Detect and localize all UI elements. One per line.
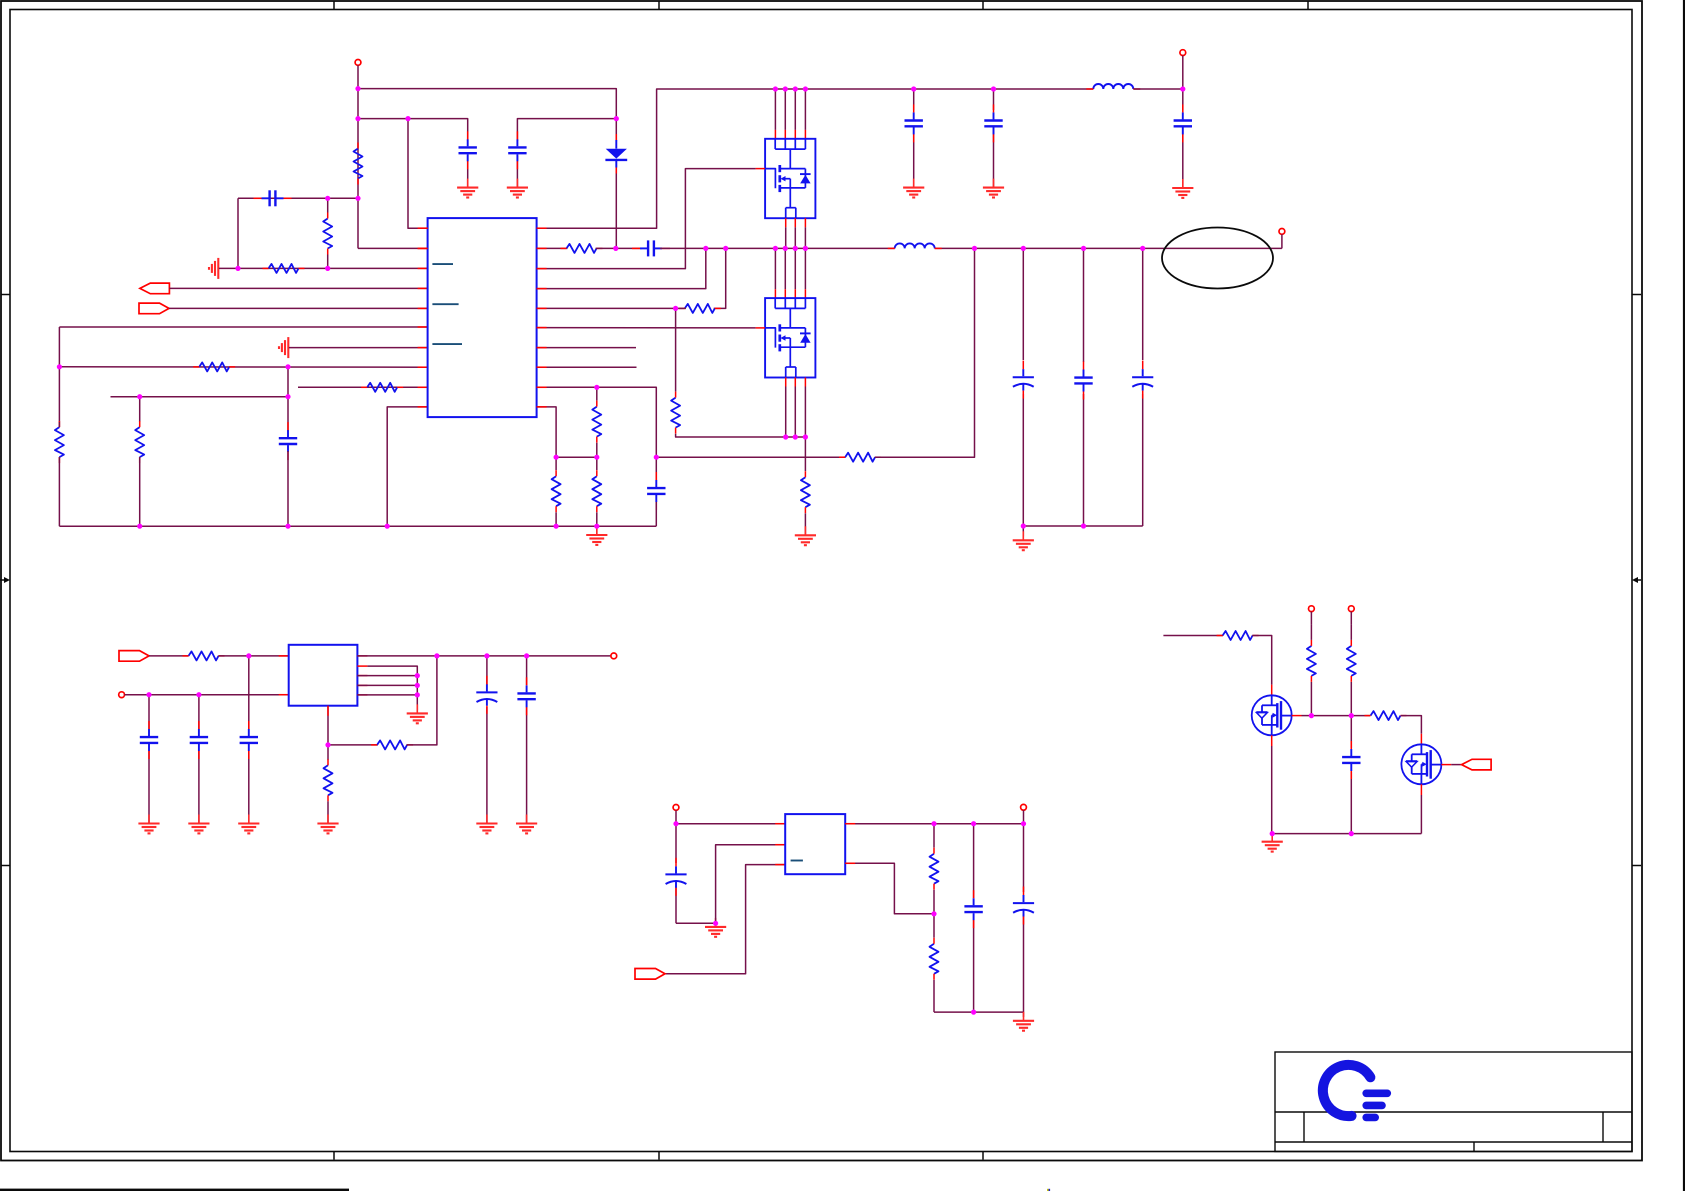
wire U3 en net: [665, 865, 785, 974]
wire C7 top: [655, 457, 657, 480]
terminal VOUT T2: [1180, 50, 1186, 89]
diode D1: [605, 134, 627, 174]
red stub U3 fb: [845, 862, 855, 864]
wire Q2 bottom pins: [786, 378, 806, 438]
terminal T8: [1309, 606, 1315, 625]
border zone ticks bottom: [334, 1152, 983, 1160]
red stub pin6L: [418, 326, 428, 328]
wire PG: [169, 307, 428, 309]
capacitor C10: [1074, 362, 1092, 400]
wire left vertical leg: [58, 327, 60, 422]
red stub M1 source: [1271, 735, 1273, 746]
wire M2 source: [1420, 795, 1422, 834]
wire pin7R stub: [537, 347, 636, 349]
wire in row: [1163, 635, 1223, 637]
red stub M2 source: [1420, 784, 1422, 795]
wire FB row: [656, 456, 845, 458]
capacitor C1: [459, 131, 477, 169]
capacitor CP5 polarized: [1013, 887, 1034, 925]
wire U2 out net: [357, 655, 611, 657]
wire C17 leg: [1350, 716, 1352, 834]
capacitor C19: [240, 721, 258, 759]
wire diode to SW junction: [615, 161, 617, 249]
wire C3 row: [238, 197, 358, 199]
viewport right edge line: [1683, 0, 1685, 1191]
red stub pin10L: [418, 406, 428, 408]
wire comp row: [219, 267, 428, 269]
wire EN: [169, 287, 427, 289]
ground main: [586, 526, 607, 545]
ground U2: [407, 704, 428, 723]
wire C2 stem: [516, 156, 518, 188]
wire CP4 leg: [675, 824, 677, 924]
wire CP1 leg: [1022, 248, 1024, 526]
ground C13: [138, 815, 159, 834]
wire C16 leg: [973, 824, 975, 1012]
wire output gnd rail: [1023, 525, 1142, 527]
wire R24 to M2: [1401, 716, 1422, 734]
ground C4: [903, 179, 924, 198]
capacitor C8: [632, 240, 670, 256]
wire C3 left leg: [237, 198, 239, 268]
resistor R21: [1217, 631, 1259, 640]
capacitor CP1 polarized: [1013, 361, 1034, 399]
ic U3 pin mark: [791, 860, 803, 862]
terminal SW T3: [1279, 229, 1285, 249]
wire M1 gate net: [1302, 715, 1312, 717]
wire Q1 top pins: [775, 89, 805, 139]
ic U2: [289, 645, 358, 706]
wire U2 gnd pins: [357, 666, 417, 710]
inductor L2: [888, 243, 942, 248]
resistor R4: [193, 362, 235, 371]
capacitor C14: [190, 721, 208, 759]
resistor R10: [592, 470, 601, 526]
wire pin7L: [289, 347, 428, 349]
ground C2: [507, 179, 528, 198]
wire SW rail: [660, 247, 1282, 249]
resistor R2: [323, 198, 332, 268]
wire VIN rail to diode: [358, 89, 616, 142]
ground C12: [1172, 179, 1193, 198]
wire pin8R stub: [537, 366, 637, 368]
wire y396 row: [111, 396, 289, 398]
wire F3 to R16: [149, 655, 189, 657]
ground C14: [188, 815, 209, 834]
wire R17 to out: [407, 656, 437, 745]
company logo: [1323, 1065, 1387, 1118]
ground C5: [983, 179, 1004, 198]
capacitor C12: [1174, 104, 1192, 142]
capacitor CP2 polarized: [1132, 361, 1153, 399]
red stub M1 gate: [1292, 715, 1302, 717]
capacitor C2: [508, 131, 526, 169]
earth symbol E2: [279, 337, 288, 358]
capacitor C5: [984, 104, 1002, 142]
capacitor C13: [140, 721, 158, 759]
next page top bar: [0, 1189, 349, 1191]
wire pin2R: [537, 247, 568, 249]
flag VCC in: [119, 651, 149, 662]
resistor R16: [183, 651, 225, 660]
wire R12 to dot: [596, 247, 616, 249]
resistor R12: [561, 244, 603, 253]
wire pin4R net: [537, 248, 706, 288]
ground C19: [238, 815, 259, 834]
wire CP4 to gnd dot: [676, 922, 716, 924]
red stub U3 en: [775, 864, 785, 866]
wire M2 gate net: [1451, 764, 1461, 766]
capacitor C3: [254, 190, 292, 206]
red stub M1 drain: [1271, 685, 1273, 696]
wire C14 leg: [198, 695, 200, 824]
red stub pin1R: [537, 227, 547, 229]
wire C1 stem: [467, 156, 469, 188]
capacitor C15: [517, 677, 535, 715]
border zone ticks top: [334, 1, 1308, 10]
wire VIN vertical: [357, 89, 359, 119]
earth symbol E1: [209, 258, 218, 279]
red stub pin4R: [537, 288, 547, 290]
flag OUT en: [1462, 759, 1492, 770]
capacitor C16: [964, 890, 982, 928]
wire C13 leg: [148, 695, 150, 824]
wire U3 gnd pin: [716, 845, 786, 924]
wire C19 leg: [248, 656, 250, 824]
wire pin10L net: [387, 407, 427, 526]
border center arrow right: [1632, 577, 1641, 583]
ground M1: [1262, 833, 1283, 852]
wire x288 vertical: [287, 367, 289, 431]
red stub M2 drain: [1420, 734, 1422, 745]
wire L1 to T2: [1133, 88, 1182, 90]
wire load gnd rail: [1272, 833, 1421, 835]
red stub pin9R: [537, 386, 547, 388]
ground mid2: [1013, 1012, 1034, 1031]
transistor M2: [1401, 744, 1441, 784]
wire U3 out net: [845, 823, 1023, 825]
resistor R13: [679, 304, 721, 313]
wire R9-R10: [596, 443, 598, 470]
wire pin9L net: [298, 386, 428, 388]
resistor R6: [55, 421, 64, 526]
wire Q2 gate net: [537, 327, 765, 329]
resistor R22: [1307, 625, 1316, 716]
wire R19 leg: [933, 824, 935, 848]
resistor R24: [1365, 711, 1407, 720]
wire T6 to U3: [676, 823, 785, 825]
resistor R15: [801, 471, 810, 535]
wire pin8L net: [59, 366, 427, 368]
transistor Q2: [765, 298, 815, 377]
resistor R17: [371, 740, 413, 749]
wire mid gnd rail: [934, 1011, 1024, 1013]
terminal T5: [611, 653, 617, 659]
resistor R5: [135, 421, 144, 526]
ground C1: [457, 179, 478, 198]
flag EN2: [635, 969, 665, 980]
ground R15: [795, 526, 816, 545]
flag EN: [140, 283, 170, 294]
border zone ticks left: [1, 295, 10, 866]
capacitor CP4 polarized: [665, 858, 686, 896]
wire C15 leg: [526, 656, 528, 824]
wire R20 leg: [933, 914, 935, 938]
capacitor C4: [905, 104, 923, 142]
wire R18 leg: [327, 745, 329, 760]
wire FB2 row: [328, 744, 378, 746]
ic U1 pin marks: [432, 264, 462, 344]
wire R11 to SW: [875, 248, 975, 457]
wire C12 stem: [1182, 89, 1184, 188]
resistor R3: [263, 264, 305, 273]
resistor R18: [324, 759, 333, 823]
terminal T4: [119, 692, 289, 698]
red stub pin10R: [537, 406, 547, 408]
wire R14 leg: [675, 308, 677, 391]
border center arrow left: [0, 577, 10, 583]
resistor R8: [552, 470, 561, 526]
wire C4 stem: [913, 89, 915, 188]
red stub pin1L: [418, 227, 428, 229]
wire Q1 bottom pins: [786, 218, 806, 248]
wire C6 to rail: [287, 451, 289, 526]
wire R5 leg: [139, 397, 141, 422]
node SW ellipse: [1162, 228, 1273, 289]
wire ground rail: [59, 525, 656, 527]
wire Q2 top pins: [775, 248, 805, 298]
red stub U3 mid: [775, 844, 785, 846]
resistor R23: [1347, 625, 1356, 716]
transistor M1: [1252, 695, 1292, 735]
resistor R14: [671, 392, 680, 434]
wire U2 adj pin: [327, 706, 329, 745]
wire gate row: [1311, 715, 1370, 717]
wire second rail segment A: [358, 119, 468, 141]
wire pin9R net: [537, 387, 657, 457]
wire U3 fb net: [845, 863, 934, 914]
capacitor C17: [1342, 741, 1360, 779]
border zone ticks right: [1632, 295, 1641, 866]
wire C5 stem: [993, 89, 995, 188]
wire M1 source: [1271, 746, 1273, 834]
wire CP5 leg: [1023, 824, 1025, 1012]
transistor Q1: [765, 139, 815, 218]
wire R13 to dot: [537, 307, 686, 309]
wire pin2L entry: [358, 247, 428, 249]
wire C7 bottom: [655, 502, 657, 526]
flag PG: [139, 303, 169, 314]
wire second rail segment B: [517, 119, 616, 141]
capacitor C7: [647, 472, 665, 510]
ground CP3: [476, 815, 497, 834]
ground output: [1013, 526, 1034, 550]
wire pin9R branch: [596, 387, 598, 400]
wire pin10R net: [537, 407, 557, 470]
terminal T9: [1348, 606, 1354, 625]
wire Q1 gate net: [537, 169, 765, 269]
wire C10 leg: [1083, 248, 1085, 526]
ground C15: [516, 815, 537, 834]
resistor R7: [361, 383, 403, 392]
wire R15 leg: [804, 437, 806, 471]
terminal VIN T1: [355, 60, 361, 89]
wire R14 to Q2 sources: [676, 434, 806, 437]
wire pin1R net: [537, 89, 1094, 228]
wire pin6L net: [59, 326, 427, 328]
capacitor C6: [279, 422, 297, 460]
resistor R1: [354, 143, 363, 185]
wire R1 run: [357, 119, 359, 249]
title block table: [1275, 1052, 1632, 1152]
wire CP3 leg: [486, 656, 488, 824]
wire CP2 leg: [1142, 248, 1144, 526]
ground mid: [705, 918, 726, 937]
ic U3: [785, 814, 845, 874]
page edge mark: [1047, 1189, 1050, 1191]
red stub M2 gate: [1441, 764, 1451, 766]
terminal T6: [673, 805, 679, 824]
wire y457 link: [556, 456, 597, 458]
wire pin1L net: [408, 119, 428, 229]
ic U1: [428, 218, 537, 417]
resistor R9: [592, 401, 601, 443]
capacitor CP3 polarized: [476, 676, 497, 714]
resistor R11: [839, 453, 881, 462]
wire SW to C8: [616, 247, 642, 249]
terminal T7: [1021, 804, 1027, 823]
red stubs U1 left: [418, 228, 428, 248]
resistor R19: [930, 848, 939, 914]
inductor L1: [1086, 84, 1140, 89]
wire R21 to M1: [1252, 636, 1272, 685]
wire pin5R net: [714, 248, 726, 308]
resistor R20: [930, 938, 939, 1012]
ground R18: [317, 815, 338, 834]
red stubs U2 right: [357, 656, 367, 695]
wire R16 to U2: [218, 655, 288, 657]
